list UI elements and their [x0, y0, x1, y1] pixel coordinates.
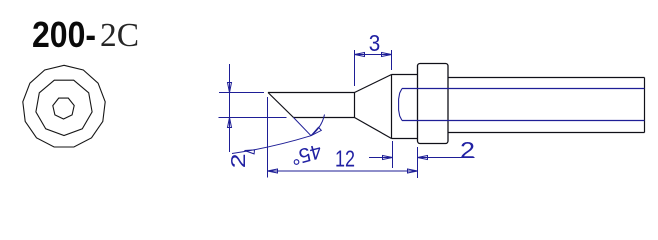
barrel bottom edge	[294, 117, 355, 119]
svg-text:200-: 200-	[32, 14, 96, 55]
dim2right extension line	[392, 141, 394, 168]
shaft top edge	[448, 77, 645, 79]
dim2right arrow right	[418, 156, 428, 160]
dim2right arrow left	[383, 156, 393, 160]
front view outer polygon circle	[23, 65, 105, 147]
bore end arc	[399, 89, 402, 121]
bore bottom line	[402, 120, 645, 122]
dim45 leader line	[232, 136, 311, 154]
front view inner polygon circle	[53, 98, 74, 119]
shaft end vertical	[644, 78, 646, 133]
barrel end vertical	[354, 93, 356, 118]
dim2left dimension line vertical	[229, 64, 231, 152]
svg-text:12: 12	[335, 146, 355, 172]
cone end vertical	[391, 75, 393, 139]
svg-text:2C: 2C	[100, 17, 139, 54]
svg-text:45°: 45°	[288, 139, 324, 169]
dim45 arc	[311, 115, 325, 136]
dim12 extension line right	[417, 147, 419, 178]
dim2left extension line bottom	[219, 117, 287, 119]
svg-text:2: 2	[460, 137, 475, 163]
dim3 arrow left	[355, 53, 365, 57]
dim45 leader arrowhead	[245, 150, 255, 154]
dim2right right tail	[418, 157, 475, 159]
dim3 extension line left	[354, 50, 356, 86]
dim3 arrow right	[382, 53, 392, 57]
dim2left arrow top	[228, 83, 232, 93]
dim12 arrow right	[408, 169, 418, 173]
tip bevel edge 45deg	[268, 93, 294, 118]
dim2left arrow bottom	[228, 118, 232, 128]
dim12 arrow left	[268, 169, 278, 173]
dim45 arc arrowhead	[311, 127, 321, 136]
dim12 dimension line	[268, 170, 418, 172]
dim2right left tail	[369, 157, 393, 159]
front view middle polygon circle	[36, 80, 92, 135]
dim3 dimension line	[355, 54, 392, 56]
cone top edge	[355, 75, 392, 93]
shaft bottom edge	[448, 132, 645, 134]
neck top edge	[392, 74, 418, 76]
cone bottom edge	[355, 118, 392, 139]
neck bottom edge	[392, 138, 418, 140]
dim3 extension line right	[391, 50, 393, 70]
svg-text:2: 2	[227, 154, 250, 169]
dim2left extension line top	[219, 92, 264, 94]
collar rectangle	[418, 64, 449, 144]
svg-text:3: 3	[369, 30, 381, 56]
tip top edge	[268, 92, 355, 94]
bore top line	[402, 88, 645, 90]
dim12 extension line left	[267, 97, 269, 178]
dim45 bevel extension line	[294, 118, 312, 136]
